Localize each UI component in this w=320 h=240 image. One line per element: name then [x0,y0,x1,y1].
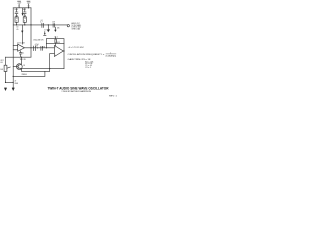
svg-text:TWIN-T AUDIO SINE WAVE OSCILLA: TWIN-T AUDIO SINE WAVE OSCILLATOR [48,86,110,90]
svg-text:0.1: 0.1 [22,52,24,54]
capacitor C1 branch left [15,8,18,17]
arrowhead mid [21,31,23,34]
resistor R1 box left [15,17,18,22]
transistor Q1 circle [16,64,22,70]
svg-text:1K: 1K [23,65,25,67]
resistor R2 box right [23,17,26,22]
wire U1A output [25,47,55,49]
transistor emitter arrow [20,68,22,69]
svg-text:C3: C3 [16,27,18,29]
transistor Q1 emitter [18,68,22,72]
capacitor C2 branch right [24,8,27,17]
svg-text:+: + [55,54,56,56]
wire riser to +input [49,54,51,72]
svg-text:+V: +V [44,29,46,31]
op-amp U1A [18,44,25,51]
node bus y25 [13,24,67,26]
pot R8 left branch [5,57,7,65]
svg-text:25V: 25V [35,46,38,48]
wire top rail [13,7,31,9]
svg-text:1/2 1458: 1/2 1458 [17,42,25,44]
svg-text:47K: 47K [42,46,45,48]
svg-text:LOW Z 600: LOW Z 600 [72,27,81,29]
power +15V flag left [18,1,21,8]
wire ground link [6,81,14,83]
svg-text:4.7: 4.7 [40,22,42,24]
wire mid node [6,56,32,58]
svg-text:OSCILLATION FREQUENCY =: OSCILLATION FREQUENCY = [68,53,105,56]
svg-text:1.0K: 1.0K [23,15,26,17]
power -15V flag right [27,1,30,8]
wire lower loop [22,70,50,72]
svg-text:LVL: LVL [0,62,3,64]
ground stub2 [54,27,56,30]
capacitor C5 inside box [55,37,57,46]
wire right vertical bus [30,8,32,57]
svg-text:4.7uF: 4.7uF [35,44,39,46]
svg-text:2N3904: 2N3904 [22,74,27,76]
svg-text:+: + [14,12,15,14]
svg-text:K: K [16,21,17,23]
ground arrow pot [4,88,7,91]
wire U1A non-inverting input [13,49,18,51]
arrow top center [22,8,24,14]
svg-text:1.0K: 1.0K [15,15,18,17]
transistor Q1 base bar [13,65,18,69]
svg-text:©2008 BY ARTHUR HARRISON: ©2008 BY ARTHUR HARRISON [61,90,91,93]
wire left border [12,8,14,88]
svg-text:.05: .05 [16,29,18,31]
svg-text:C5 .1: C5 .1 [54,37,58,39]
svg-text:10uF: 10uF [23,9,27,11]
capacitor under U1A [20,51,22,57]
svg-text:+: + [18,50,19,52]
arrow to op-amp supply [21,25,23,44]
svg-text:(6.28)(R)(C): (6.28)(R)(C) [106,55,117,57]
output cap C8 [53,24,55,28]
capacitor C6 on output wire [34,46,36,51]
svg-text:10K: 10K [57,28,60,30]
wire box right riser to output [63,43,65,68]
ground arrow left border [12,88,15,91]
svg-text:K: K [24,21,25,23]
wire riser feedback left [45,43,47,47]
wire U1B non-inverting input [50,53,55,55]
svg-text:1.0: 1.0 [16,18,18,20]
svg-text:+: + [22,12,23,14]
arrowhead +V tick [44,33,46,35]
svg-text:REV: 1: REV: 1 [109,95,117,97]
capacitor C7 second [41,46,43,50]
wire emitter bus [22,68,64,70]
+V tick symbol [44,32,46,36]
svg-text:R1 = 1.0K: R1 = 1.0K [85,61,93,63]
ground output [47,30,49,32]
svg-text:10uF: 10uF [14,9,18,11]
svg-text:C2 = .1: C2 = .1 [85,67,91,69]
svg-text:0.1: 0.1 [28,5,30,7]
op-amp U1B [54,46,63,57]
output terminal circle [67,25,69,27]
wire U1B output [62,50,65,52]
svg-text:LM-1458 OR: LM-1458 OR [33,39,44,41]
svg-text:10K: 10K [52,22,55,24]
svg-text:OUT: OUT [0,60,3,62]
wire U1A inverting input [13,45,18,47]
svg-text:1.0: 1.0 [24,18,26,20]
output coupling cap C4 [42,23,44,27]
svg-text:C1 = .05: C1 = .05 [85,65,92,67]
wire bottom loop2 [13,71,45,76]
svg-text:47: 47 [15,81,17,83]
svg-text:1458: 1458 [57,42,60,44]
arrowhead top center [22,13,24,16]
ground output2 [54,30,56,32]
svg-text:TR-1 OB: TR-1 OB [20,59,26,61]
ground stub at output [47,25,50,30]
transistor Q1 collector [18,57,22,65]
junction dots [28,7,29,8]
svg-text:10K: 10K [0,69,3,71]
svg-text:C4: C4 [41,20,43,22]
svg-text:+V = 5 TO 15 VDC: +V = 5 TO 15 VDC [68,47,85,49]
feedback network box [46,39,64,44]
svg-text:R2 = 1.0K: R2 = 1.0K [85,63,92,65]
